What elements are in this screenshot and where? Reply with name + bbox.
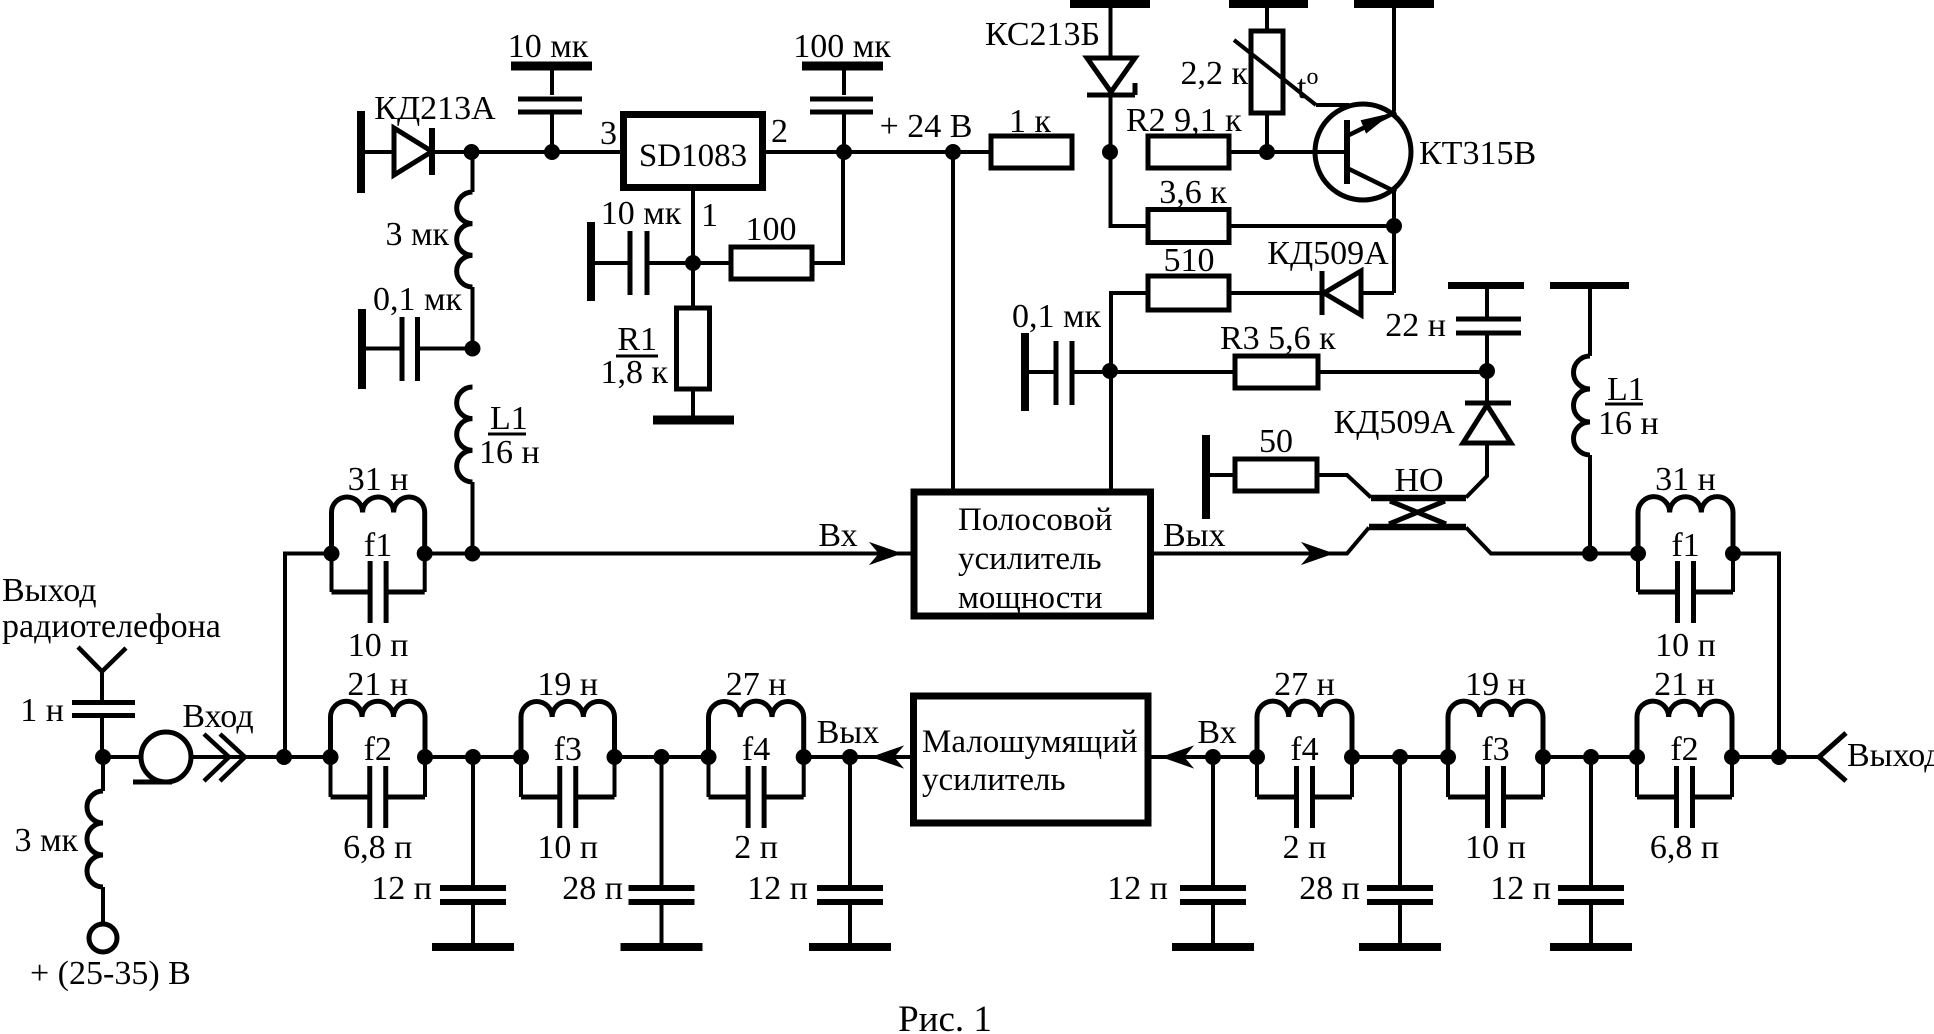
node C (100uF tap) bbox=[836, 144, 852, 160]
node B (10uF tap) bbox=[544, 144, 560, 160]
svg-text:f3: f3 bbox=[1481, 731, 1509, 768]
node f4 left bbox=[701, 749, 717, 765]
node A (diode/coil junction) bbox=[464, 144, 480, 160]
svg-text:19 н: 19 н bbox=[1465, 666, 1526, 703]
svg-text:100: 100 bbox=[746, 211, 797, 248]
capacitor 12 п bbox=[817, 885, 883, 891]
wire from node down to capacitor 12 п bbox=[471, 757, 475, 886]
wire capacitor to ground bbox=[848, 904, 852, 944]
filter f2 inductor 21 н bbox=[1637, 701, 1732, 757]
Вход arrow (double chevron) bbox=[204, 734, 229, 781]
wire terminal to diode VD1 bbox=[365, 150, 394, 154]
wire from node down to capacitor 12 п bbox=[848, 757, 852, 886]
wire capacitor to ground bbox=[1589, 904, 1593, 944]
capacitor 0,1 мк (right) terminal bar bbox=[1021, 333, 1029, 411]
node M (1н/3мк junction) bbox=[95, 749, 111, 765]
wire f2 to 12п node bbox=[425, 755, 521, 759]
svg-text:L1: L1 bbox=[490, 400, 528, 437]
wire from node down to capacitor 12 п bbox=[1211, 757, 1215, 886]
node f4 left bbox=[1249, 749, 1265, 765]
svg-text:12 п: 12 п bbox=[1107, 870, 1168, 907]
wire from node down to capacitor 28 п bbox=[1398, 757, 1402, 886]
voltage regulator U1 SD1083 bbox=[624, 115, 763, 188]
svg-text:Малошумящий: Малошумящий bbox=[922, 724, 1138, 760]
filter f1 inductor 31 н bbox=[332, 497, 425, 554]
wire f3 to 28п node bbox=[615, 755, 709, 759]
capacitor 22 н ground bar bbox=[1448, 282, 1524, 289]
capacitor 28 п bbox=[1367, 885, 1433, 891]
svg-text:1 к: 1 к bbox=[1009, 103, 1052, 140]
svg-text:f4: f4 bbox=[742, 731, 770, 768]
svg-text:R1: R1 bbox=[617, 321, 657, 358]
svg-text:6,8 п: 6,8 п bbox=[343, 829, 412, 866]
ground bbox=[809, 943, 891, 951]
svg-text:f2: f2 bbox=[364, 731, 392, 768]
svg-text:6,8 п: 6,8 п bbox=[1650, 829, 1719, 866]
svg-text:Вых: Вых bbox=[1163, 517, 1226, 554]
resistor 510 bbox=[1111, 293, 1148, 489]
svg-text:22 н: 22 н bbox=[1385, 307, 1446, 344]
svg-text:31 н: 31 н bbox=[348, 461, 409, 498]
svg-text:1,8 к: 1,8 к bbox=[600, 354, 668, 391]
svg-text:усилитель: усилитель bbox=[922, 762, 1066, 798]
svg-text:3,6 к: 3,6 к bbox=[1159, 174, 1227, 211]
capacitor 100 мк terminal bar bbox=[802, 62, 883, 71]
capacitor 0,1 мк (left) terminal bar bbox=[358, 309, 366, 389]
terminator bar (50 ohm) bbox=[1202, 435, 1210, 519]
svg-text:16 н: 16 н bbox=[1598, 405, 1659, 442]
node f1 left bbox=[324, 546, 340, 562]
node f2 left bbox=[323, 749, 339, 765]
diode КД213А bbox=[394, 128, 432, 175]
wire from node down to capacitor 28 п bbox=[660, 757, 664, 886]
svg-text:21 н: 21 н bbox=[1654, 666, 1715, 703]
svg-text:усилитель: усилитель bbox=[958, 541, 1102, 577]
filter f2 inductor 21 н bbox=[331, 701, 426, 757]
svg-text:радиотелефона: радиотелефона bbox=[2, 608, 221, 645]
power bar above transistor collector bbox=[1354, 0, 1434, 8]
svg-text:КД509А: КД509А bbox=[1267, 235, 1389, 272]
node f2 right bbox=[417, 749, 433, 765]
resistor 100 bbox=[693, 261, 731, 265]
svg-text:Вх: Вх bbox=[818, 517, 857, 554]
wire capacitor to ground bbox=[1211, 904, 1215, 944]
wire 50 to coupler bbox=[1317, 475, 1371, 498]
svg-text:0,1 мк: 0,1 мк bbox=[1012, 298, 1102, 335]
node H (emitter/3,6к junction) bbox=[1386, 218, 1402, 234]
capacitor 10 мк (adj) plates bbox=[628, 231, 633, 295]
coupler output leads bbox=[1154, 528, 1369, 554]
ground bbox=[621, 943, 703, 951]
capacitor 10 мк (adj bypass) terminal bar bbox=[587, 222, 595, 301]
svg-text:50: 50 bbox=[1259, 423, 1293, 460]
node P (28п shunt) bbox=[654, 749, 670, 765]
resistor 50 bbox=[1235, 459, 1317, 491]
resistor 1 к bbox=[991, 136, 1072, 168]
input terminal bar (rectifier input) bbox=[357, 111, 365, 193]
inductor 3 мк (top left choke) bbox=[471, 152, 475, 192]
svg-text:0,1 мк: 0,1 мк bbox=[373, 281, 463, 318]
node E (0,1мк junction) bbox=[465, 341, 481, 357]
inductor L1 16 н (right) ground bar bbox=[1550, 282, 1629, 289]
wire +24V to power amp bbox=[951, 152, 955, 489]
svg-text:Выход: Выход bbox=[2, 572, 97, 609]
svg-text:2,2 к: 2,2 к bbox=[1180, 55, 1248, 92]
svg-text:27 н: 27 н bbox=[726, 666, 787, 703]
svg-text:10 п: 10 п bbox=[537, 829, 598, 866]
capacitor 12 п bbox=[1180, 885, 1246, 891]
node S (28п shunt) bbox=[1392, 749, 1408, 765]
filter f3 capacitor 10 п bbox=[519, 757, 523, 797]
svg-text:f3: f3 bbox=[554, 731, 582, 768]
node K (L1 left junction) bbox=[465, 546, 481, 562]
node f3 left bbox=[1440, 749, 1456, 765]
node T (12п shunt) bbox=[1583, 749, 1599, 765]
svg-text:f4: f4 bbox=[1290, 731, 1318, 768]
capacitor 22 н plates bbox=[1456, 317, 1521, 322]
svg-text:R3 5,6 к: R3 5,6 к bbox=[1220, 320, 1336, 357]
capacitor 0,1 мк (left) plates bbox=[400, 317, 405, 381]
filter f1 capacitor 10 п bbox=[330, 554, 334, 593]
svg-text:+ (25-35) В: + (25-35) В bbox=[30, 955, 191, 992]
filter f1 inductor 31 н bbox=[1638, 497, 1733, 554]
filter f4 capacitor 2 п bbox=[1255, 757, 1259, 797]
node f1 left bbox=[1630, 546, 1646, 562]
wire R2 to transistor base bbox=[1229, 150, 1344, 154]
block: Полосовой усилитель мощности bbox=[914, 492, 1151, 616]
diode КД509А (detector) bbox=[1485, 371, 1489, 401]
wire R1 to ground bbox=[691, 389, 695, 416]
svg-text:510: 510 bbox=[1164, 242, 1215, 279]
node f1 right bbox=[417, 546, 433, 562]
wire capacitor to ground bbox=[660, 904, 664, 944]
wire pin 2 to +24V rail bbox=[766, 150, 991, 154]
node f4 right bbox=[1344, 749, 1360, 765]
svg-text:2: 2 bbox=[771, 113, 788, 150]
Выход arrow bbox=[1819, 733, 1846, 781]
supply terminal circle bbox=[89, 924, 117, 952]
power bar above thermistor bbox=[1229, 0, 1308, 8]
svg-text:мощности: мощности bbox=[958, 580, 1103, 616]
wire coupler to f1 right bbox=[1491, 552, 1638, 556]
wire f4 to LNA bbox=[804, 755, 912, 759]
wire f1-right down to output row bbox=[1733, 554, 1779, 758]
output arrow of power amp bbox=[1304, 544, 1331, 563]
svg-text:28 п: 28 п bbox=[1299, 870, 1360, 907]
node Q (12п shunt) bbox=[842, 749, 858, 765]
svg-text:31 н: 31 н bbox=[1655, 461, 1716, 498]
wire f3 to 12п node bbox=[1543, 755, 1637, 759]
capacitor 12 п bbox=[1558, 885, 1624, 891]
filter f2 capacitor 6,8 п bbox=[1635, 757, 1639, 797]
svg-text:+ 24 В: + 24 В bbox=[880, 108, 973, 145]
capacitor 1 н bbox=[72, 700, 135, 705]
filter f4 capacitor 2 п bbox=[707, 757, 711, 797]
node G (thermistor/base junction) bbox=[1259, 144, 1275, 160]
wire f1 to amp input bbox=[425, 552, 911, 556]
svg-text:12 п: 12 п bbox=[747, 870, 808, 907]
svg-text:R2 9,1 к: R2 9,1 к bbox=[1126, 102, 1242, 139]
svg-text:f1: f1 bbox=[1671, 527, 1699, 564]
svg-text:КС213Б: КС213Б bbox=[985, 16, 1100, 53]
capacitor 10 мк (input electrolytic), terminal bar bbox=[511, 62, 592, 71]
capacitor 10 мк plates bbox=[518, 97, 582, 102]
node f3 right bbox=[1535, 749, 1551, 765]
transistor КТ315В bbox=[1315, 104, 1411, 200]
svg-text:Вх: Вх bbox=[1197, 714, 1236, 751]
node I (R3/0,1мк junction) bbox=[1102, 363, 1118, 379]
power bar above zener bbox=[1070, 0, 1150, 8]
node J (22н/diode junction) bbox=[1479, 363, 1495, 379]
wire to f2 bbox=[284, 755, 331, 759]
node L (L1 right junction) bbox=[1582, 546, 1598, 562]
node +24V bbox=[945, 144, 961, 160]
wire left riser (f1 to input line) bbox=[285, 554, 332, 758]
node f3 left bbox=[513, 749, 529, 765]
ground bbox=[1172, 943, 1254, 951]
svg-text:10 п: 10 п bbox=[1465, 829, 1526, 866]
svg-text:12 п: 12 п bbox=[1490, 870, 1551, 907]
circulator bbox=[103, 755, 141, 759]
inductor L1 16 н (left) bbox=[457, 387, 473, 482]
svg-text:1: 1 bbox=[701, 197, 718, 234]
svg-text:100 мк: 100 мк bbox=[793, 28, 891, 65]
pin 1 stem of SD1083 bbox=[691, 191, 695, 263]
svg-text:Рис. 1: Рис. 1 bbox=[898, 999, 992, 1034]
svg-text:КД213А: КД213А bbox=[374, 90, 496, 127]
svg-text:21 н: 21 н bbox=[347, 666, 408, 703]
svg-text:12 п: 12 п bbox=[371, 870, 432, 907]
LNA output arrow bbox=[874, 748, 901, 767]
svg-text:10 мк: 10 мк bbox=[508, 28, 589, 65]
svg-text:3 мк: 3 мк bbox=[385, 216, 449, 253]
svg-text:16 н: 16 н bbox=[479, 434, 540, 471]
svg-text:Выход: Выход bbox=[1847, 737, 1934, 774]
capacitor 12 п bbox=[440, 885, 506, 891]
filter f3 inductor 19 н bbox=[521, 701, 615, 757]
svg-text:SD1083: SD1083 bbox=[639, 138, 747, 174]
svg-text:КД509А: КД509А bbox=[1334, 404, 1456, 441]
resistor R1 1,8 к bbox=[691, 263, 695, 308]
resistor R2 9,1 к bbox=[1148, 136, 1229, 168]
wire capacitor to ground bbox=[471, 904, 475, 944]
svg-text:НО: НО bbox=[1394, 462, 1443, 499]
svg-text:Полосовой: Полосовой bbox=[958, 502, 1112, 538]
node f4 right bbox=[796, 749, 812, 765]
svg-text:10 мк: 10 мк bbox=[601, 195, 682, 232]
svg-text:3: 3 bbox=[600, 115, 617, 152]
svg-text:19 н: 19 н bbox=[537, 666, 598, 703]
block: Малошумящий усилитель bbox=[914, 696, 1149, 823]
node F (zener/R2 junction) bbox=[1102, 144, 1118, 160]
capacitor 28 п bbox=[629, 885, 695, 891]
diode КД509А (feedback) bbox=[1320, 271, 1325, 315]
node f3 right bbox=[607, 749, 623, 765]
wire from node down to capacitor 12 п bbox=[1589, 757, 1593, 886]
inductor 3 мк (bias feed) bbox=[101, 757, 105, 791]
node f2 left bbox=[1629, 749, 1645, 765]
svg-text:3 мк: 3 мк bbox=[14, 822, 78, 859]
svg-text:2 п: 2 п bbox=[734, 829, 778, 866]
filter f4 inductor 27 н bbox=[1257, 701, 1352, 757]
svg-text:28 п: 28 п bbox=[562, 870, 623, 907]
wire resistor 100 to +24V node bbox=[812, 152, 843, 263]
svg-text:27 н: 27 н bbox=[1274, 666, 1335, 703]
ground bbox=[1550, 943, 1632, 951]
inductor L1 16 н (right) bbox=[1574, 356, 1591, 455]
filter f1 capacitor 10 п bbox=[1636, 554, 1640, 593]
node R (12п shunt) bbox=[1205, 749, 1221, 765]
svg-text:1 н: 1 н bbox=[20, 692, 64, 729]
node f2 right bbox=[1724, 749, 1740, 765]
wire f4 to 28п node bbox=[1352, 755, 1448, 759]
zener diode КС213Б bbox=[1109, 8, 1113, 58]
svg-text:f2: f2 bbox=[1670, 731, 1698, 768]
svg-text:f1: f1 bbox=[364, 527, 392, 564]
ground (R1) bbox=[653, 416, 734, 425]
filter f3 capacitor 10 п bbox=[1446, 757, 1450, 797]
svg-text:10 п: 10 п bbox=[348, 627, 409, 664]
filter f2 capacitor 6,8 п bbox=[329, 757, 333, 797]
wire diode to SD1083 pin 3 bbox=[432, 150, 620, 154]
input arrow to power amp bbox=[872, 544, 899, 563]
filter f4 inductor 27 н bbox=[709, 701, 804, 757]
wire LNA input bbox=[1151, 755, 1257, 759]
filter f3 inductor 19 н bbox=[1448, 701, 1543, 757]
svg-text:L1: L1 bbox=[1607, 371, 1645, 408]
LNA input arrow bbox=[1164, 748, 1191, 767]
svg-text:КТ315В: КТ315В bbox=[1419, 135, 1536, 172]
thermistor 2,2 к bbox=[1265, 8, 1269, 31]
svg-text:2 п: 2 п bbox=[1283, 829, 1327, 866]
svg-text:Вход: Вход bbox=[182, 698, 253, 735]
wire R3 to 22н node bbox=[1318, 370, 1487, 374]
node N (riser junction) bbox=[276, 749, 292, 765]
node D (pin1/R1/100/10uF junction) bbox=[685, 255, 701, 271]
capacitor 100 мк plates bbox=[810, 97, 873, 102]
node f1 right bbox=[1725, 546, 1741, 562]
wire capacitor to ground bbox=[1398, 904, 1402, 944]
wire f2 to output bbox=[1732, 755, 1819, 759]
antenna fork (radiotelephone output) bbox=[78, 647, 126, 672]
resistor R3 5,6 к bbox=[1110, 370, 1235, 374]
ground bbox=[432, 943, 514, 951]
svg-text:Вых: Вых bbox=[817, 714, 880, 751]
svg-text:10 п: 10 п bbox=[1655, 627, 1716, 664]
node U (output riser junction) bbox=[1771, 749, 1787, 765]
node O (12п shunt) bbox=[465, 749, 481, 765]
capacitor 0,1 мк (right) plates bbox=[1054, 341, 1059, 405]
coupler lead to detector diode bbox=[1466, 443, 1487, 498]
ground bbox=[1359, 943, 1441, 951]
resistor 3,6 к bbox=[1111, 152, 1149, 226]
